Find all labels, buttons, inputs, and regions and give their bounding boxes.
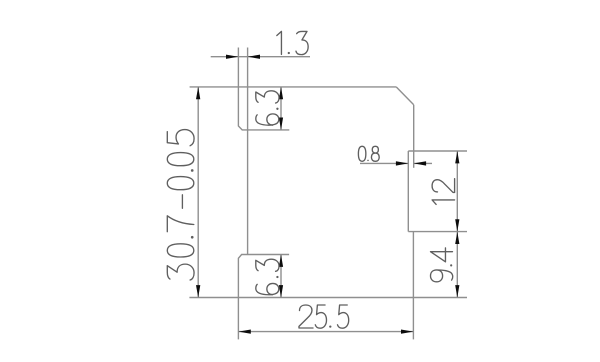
dimension line 9.4 (right vertical lower) — [456, 232, 458, 298]
dimension line 6.3 upper — [280, 87, 282, 130]
dimension line 25.5 (bottom horizontal) — [238, 331, 413, 333]
dimension text 6.3 upper — [256, 91, 279, 125]
arrowhead 1.3 right, pointing left at inner wall line — [248, 55, 260, 59]
part outline: step at tab top with 12 extension to right — [408, 150, 467, 152]
part outline: top edge (with 30.7 extension to left) — [190, 86, 397, 88]
dimension line 6.3 lower — [280, 255, 282, 298]
part outline: top-right chamfer — [396, 87, 414, 105]
part outline: right edge upper, extends down as 0.8 extension line — [413, 105, 415, 168]
dimension line 0.8 left segment — [360, 162, 408, 164]
arrowhead 30.7 top — [196, 87, 200, 99]
part outline: upper-left inner edge, chamfer and notch shelf (6.3 extension) — [238, 48, 289, 130]
arrowhead 25.5 left — [238, 330, 250, 334]
dimension text 12 — [432, 179, 455, 205]
dimension line 12 (right vertical upper) — [456, 151, 458, 232]
dimension text 30.7-0.05 — [167, 130, 194, 280]
arrowhead 0.8 left, pointing right — [396, 161, 408, 165]
arrowhead 6.3 upper top — [279, 87, 283, 99]
dimension line 30.7-0.05 (left vertical) — [197, 87, 199, 298]
dimension text 1.3 — [277, 31, 308, 54]
part outline: recessed right edge of tab — [407, 151, 409, 232]
arrowhead 25.5 right — [401, 330, 413, 334]
dimension line 0.8 right segment — [414, 162, 432, 164]
part outline: long inner vertical edge (1.3 extension above top) — [247, 48, 249, 255]
arrowhead 9.4 bottom — [455, 285, 459, 297]
dimension line 1.3 (top horizontal) — [211, 56, 310, 58]
dimension text 25.5 — [299, 305, 349, 328]
arrowhead 6.3 upper bottom — [279, 118, 283, 130]
arrowhead 6.3 lower top — [279, 255, 283, 267]
arrowhead 9.4 top — [455, 232, 459, 244]
arrowhead 6.3 lower bottom — [279, 285, 283, 297]
arrowhead 12 top — [455, 151, 459, 163]
arrowhead 1.3 left, pointing right at outer wall line — [226, 55, 238, 59]
part outline: step at tab bottom with 12/9.4 extension to right — [408, 231, 467, 233]
arrowhead 12 bottom — [455, 219, 459, 231]
arrowhead 30.7 bottom — [196, 285, 200, 297]
dimension text 6.3 lower — [256, 259, 279, 295]
part outline: bottom edge (with extensions both sides) — [189, 297, 467, 299]
dimension text 0.8 — [358, 146, 379, 161]
part outline: right edge lower, extends down as 25.5 extension line — [412, 232, 414, 340]
part outline: lower-left notch shelf, chamfer, left edge (extends down as 25.5 extension) — [238, 255, 289, 340]
dimension text 9.4 — [431, 248, 453, 282]
arrowhead 0.8 right, pointing left — [414, 161, 426, 165]
